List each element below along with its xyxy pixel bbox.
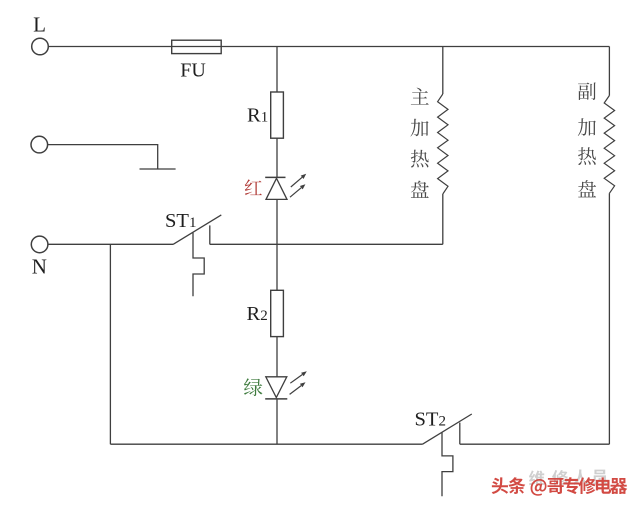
LED green triangle bbox=[266, 377, 287, 398]
label main heater plate bbox=[411, 88, 429, 198]
LED green arrow 2 bbox=[290, 386, 302, 395]
main heater element bbox=[438, 94, 448, 194]
watermark gray repairman text bbox=[529, 470, 607, 486]
LED green arrow 1 bbox=[290, 375, 302, 384]
wire ST1 rail to R2 bbox=[276, 244, 278, 290]
wire red LED to ST1 rail bbox=[276, 199, 278, 244]
wire green LED to bottom rail bbox=[276, 399, 278, 444]
terminal L bbox=[32, 38, 49, 55]
terminal N bbox=[31, 236, 48, 253]
LED green cathode bar bbox=[265, 398, 287, 400]
wire top rail L to right bbox=[48, 46, 609, 48]
resistor R2 bbox=[271, 290, 284, 336]
watermark red toutiao text bbox=[492, 477, 628, 496]
resistor R1 bbox=[271, 92, 284, 138]
LED red arrow 1 bbox=[291, 177, 302, 187]
wire R2 to green LED bbox=[276, 337, 278, 377]
label red bbox=[245, 179, 262, 195]
svg-text:L: L bbox=[33, 13, 46, 37]
LED red triangle bbox=[266, 178, 287, 199]
wire left drop N rail to bottom rail bbox=[109, 244, 111, 444]
switch ST1 contact bbox=[209, 225, 211, 244]
wire R1 branch top bbox=[276, 47, 278, 93]
fuse FU bbox=[172, 40, 222, 53]
switch ST2 blade bbox=[423, 414, 472, 444]
switch ST1 blade bbox=[173, 215, 221, 245]
terminal lid-plate bbox=[31, 136, 48, 153]
ST2 actuator crank bbox=[442, 433, 453, 497]
svg-text:N: N bbox=[32, 255, 47, 279]
svg-text:FU: FU bbox=[180, 60, 206, 82]
wire N terminal to ST1 bbox=[48, 243, 173, 245]
wire ST1 contact to main heater bbox=[210, 243, 443, 245]
label green bbox=[244, 378, 262, 396]
lid plate bar bbox=[140, 168, 176, 170]
wire sub-heater top drop bbox=[608, 47, 610, 96]
wire bottom rail right of ST2 bbox=[460, 443, 610, 445]
wire main-heater bottom bbox=[442, 194, 444, 244]
wire R1 to red LED bbox=[276, 138, 278, 177]
wire bottom rail left of ST2 bbox=[110, 443, 422, 445]
ST1 actuator crank bbox=[193, 233, 204, 297]
label sub heater plate bbox=[578, 82, 596, 197]
wire sub-heater bottom drop bbox=[608, 193, 610, 444]
wire main-heater top drop bbox=[442, 47, 444, 95]
LED red arrow 2 bbox=[290, 188, 301, 198]
wire lid-plate terminal lead bbox=[47, 145, 157, 169]
switch ST2 contact bbox=[459, 423, 461, 445]
sub heater element bbox=[604, 96, 614, 194]
LED red cathode bar bbox=[265, 176, 285, 178]
